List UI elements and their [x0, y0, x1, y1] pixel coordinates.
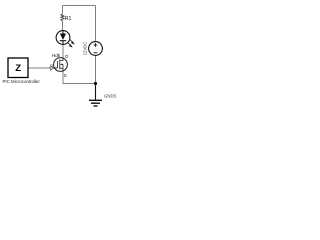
svg-text:Hdk: Hdk	[52, 53, 61, 59]
svg-text:D: D	[65, 54, 68, 59]
svg-text:12VDC: 12VDC	[82, 42, 87, 56]
svg-text:S: S	[64, 73, 67, 78]
svg-text:R1: R1	[65, 16, 72, 22]
svg-text:Z: Z	[15, 63, 21, 74]
svg-text:GNDS: GNDS	[104, 93, 117, 98]
svg-text:G: G	[50, 62, 53, 67]
svg-text:PIC Microcontroller: PIC Microcontroller	[3, 79, 41, 84]
